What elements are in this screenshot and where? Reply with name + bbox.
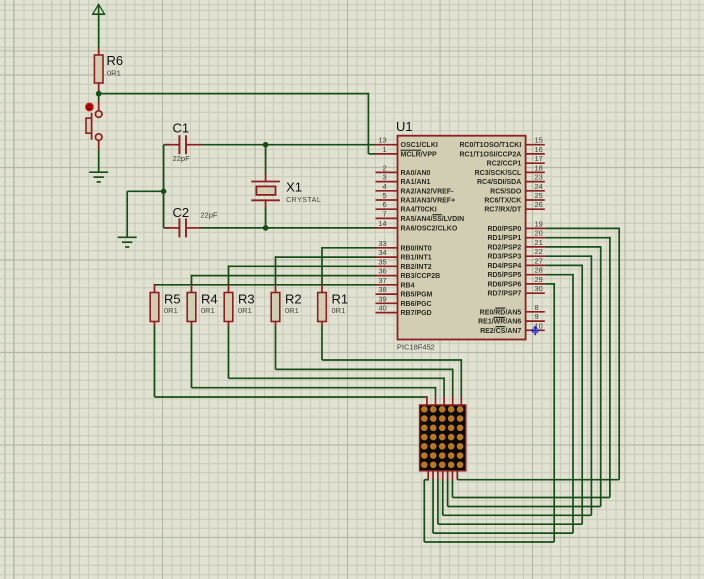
svg-text:6: 6: [383, 200, 387, 209]
svg-text:0R1: 0R1: [285, 306, 299, 315]
svg-text:23: 23: [535, 173, 543, 182]
svg-text:R5: R5: [164, 292, 181, 307]
svg-text:RC5/SDO: RC5/SDO: [490, 188, 522, 195]
svg-text:13: 13: [378, 136, 386, 145]
svg-text:38: 38: [378, 285, 386, 294]
svg-text:29: 29: [535, 275, 543, 284]
svg-text:18: 18: [535, 163, 543, 172]
svg-text:0R1: 0R1: [164, 306, 178, 315]
svg-text:27: 27: [535, 256, 543, 265]
svg-text:RA3/AN3/VREF+: RA3/AN3/VREF+: [401, 198, 456, 205]
svg-text:RD4/PSP4: RD4/PSP4: [487, 263, 521, 270]
svg-text:8: 8: [535, 303, 539, 312]
svg-text:RC4/SDI/SDA: RC4/SDI/SDA: [477, 179, 521, 186]
svg-text:RD0/PSP0: RD0/PSP0: [487, 226, 521, 233]
svg-text:19: 19: [535, 219, 543, 228]
svg-text:4: 4: [383, 182, 387, 191]
svg-text:14: 14: [378, 219, 386, 228]
svg-text:22pF: 22pF: [200, 211, 218, 220]
svg-text:RD7/PSP7: RD7/PSP7: [487, 291, 521, 298]
svg-text:37: 37: [378, 276, 386, 285]
svg-text:RC0/T1OSO/T1CKI: RC0/T1OSO/T1CKI: [459, 142, 521, 149]
svg-text:9: 9: [535, 312, 539, 321]
svg-text:RD6/PSP6: RD6/PSP6: [487, 281, 521, 288]
svg-text:C2: C2: [173, 205, 190, 220]
svg-text:RA6/OSC2/CLKO: RA6/OSC2/CLKO: [401, 225, 458, 232]
svg-text:16: 16: [535, 145, 543, 154]
svg-text:U1: U1: [396, 119, 413, 134]
svg-text:33: 33: [378, 239, 386, 248]
svg-text:R3: R3: [238, 292, 255, 307]
svg-text:RB1/INT1: RB1/INT1: [401, 255, 432, 262]
svg-text:5: 5: [383, 191, 387, 200]
svg-text:34: 34: [378, 248, 386, 257]
svg-text:CRYSTAL: CRYSTAL: [286, 197, 321, 204]
svg-text:RC6/TX/CK: RC6/TX/CK: [484, 198, 521, 205]
svg-text:7: 7: [383, 209, 387, 218]
svg-text:R6: R6: [107, 53, 124, 68]
svg-text:MCLR/VPP: MCLR/VPP: [401, 151, 438, 158]
svg-text:RC3/SCK/SCL: RC3/SCK/SCL: [475, 170, 522, 177]
svg-text:RE1/WR/AN6: RE1/WR/AN6: [478, 319, 521, 326]
svg-text:RB6/PGC: RB6/PGC: [401, 301, 432, 308]
svg-text:X1: X1: [286, 180, 302, 195]
svg-text:C1: C1: [173, 121, 190, 136]
svg-text:RC2/CCP1: RC2/CCP1: [487, 161, 522, 168]
svg-text:R4: R4: [201, 292, 218, 307]
svg-text:21: 21: [535, 238, 543, 247]
svg-text:35: 35: [378, 257, 386, 266]
svg-text:17: 17: [535, 154, 543, 163]
svg-text:R1: R1: [332, 292, 349, 307]
svg-text:RD3/PSP3: RD3/PSP3: [487, 254, 521, 261]
svg-text:25: 25: [535, 191, 543, 200]
svg-text:15: 15: [535, 136, 543, 145]
svg-text:RD5/PSP5: RD5/PSP5: [487, 272, 521, 279]
svg-text:RD1/PSP1: RD1/PSP1: [487, 235, 521, 242]
svg-text:3: 3: [383, 173, 387, 182]
svg-text:0R1: 0R1: [107, 69, 121, 78]
svg-text:PIC18F452: PIC18F452: [397, 342, 435, 351]
svg-text:22: 22: [535, 247, 543, 256]
svg-text:1: 1: [383, 145, 387, 154]
svg-text:OSC1/CLKI: OSC1/CLKI: [401, 142, 438, 149]
svg-text:30: 30: [535, 284, 543, 293]
svg-text:RA4/T0CKI: RA4/T0CKI: [401, 207, 437, 214]
svg-text:RB5/PGM: RB5/PGM: [401, 292, 433, 299]
svg-text:0R1: 0R1: [238, 306, 252, 315]
svg-text:RE2/CS/AN7: RE2/CS/AN7: [480, 328, 521, 335]
svg-text:RB3/CCP2B: RB3/CCP2B: [401, 273, 441, 280]
svg-text:RE0/RD/AN5: RE0/RD/AN5: [480, 309, 522, 316]
svg-text:RB2/INT2: RB2/INT2: [401, 264, 432, 271]
svg-text:28: 28: [535, 266, 543, 275]
svg-text:RA2/AN2/VREF-: RA2/AN2/VREF-: [401, 188, 455, 195]
svg-text:RA0/AN0: RA0/AN0: [401, 170, 431, 177]
svg-text:RD2/PSP2: RD2/PSP2: [487, 244, 521, 251]
svg-text:RB0/INT0: RB0/INT0: [401, 245, 432, 252]
svg-text:RA5/AN4/SS/LVDIN: RA5/AN4/SS/LVDIN: [401, 216, 465, 223]
svg-text:36: 36: [378, 267, 386, 276]
svg-text:RC7/RX/DT: RC7/RX/DT: [484, 207, 522, 214]
svg-text:26: 26: [535, 200, 543, 209]
svg-text:22pF: 22pF: [173, 154, 191, 163]
svg-text:RB4: RB4: [401, 282, 415, 289]
svg-text:0R1: 0R1: [332, 306, 346, 315]
svg-text:0R1: 0R1: [201, 306, 215, 315]
svg-text:2: 2: [383, 163, 387, 172]
svg-text:24: 24: [535, 182, 543, 191]
svg-text:20: 20: [535, 229, 543, 238]
svg-text:40: 40: [378, 304, 386, 313]
svg-text:39: 39: [378, 294, 386, 303]
svg-text:RA1/AN1: RA1/AN1: [401, 179, 431, 186]
svg-text:RC1/T1OSI/CCP2A: RC1/T1OSI/CCP2A: [459, 151, 521, 158]
svg-text:R2: R2: [285, 292, 302, 307]
svg-text:RB7/PGD: RB7/PGD: [401, 310, 432, 317]
